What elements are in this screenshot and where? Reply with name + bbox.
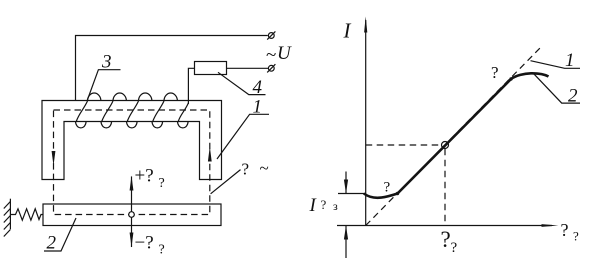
svg-text:?: ? [441, 227, 451, 252]
node on armature [129, 212, 135, 218]
y axis [365, 20, 367, 226]
svg-text:?: ? [159, 176, 165, 191]
svg-text:?: ? [573, 229, 579, 244]
svg-text:з: з [333, 199, 338, 213]
tick at Iz level [338, 193, 366, 195]
x axis [337, 225, 552, 227]
wall (hatched support) [4, 199, 11, 237]
svg-text:?: ? [242, 160, 250, 179]
label 2 leader [44, 218, 76, 251]
wire resistor to coil [188, 68, 194, 104]
dashed horizontal to point [366, 144, 441, 146]
svg-text:~: ~ [260, 159, 269, 178]
svg-text:I: I [343, 19, 352, 43]
svg-text:2: 2 [47, 233, 57, 254]
wire top from coil to terminal [76, 36, 268, 102]
armature bar 2 [43, 204, 221, 226]
spring [10, 209, 43, 220]
terminal bottom [267, 64, 275, 72]
svg-text:I: I [309, 195, 318, 216]
label 1 leader [217, 114, 269, 159]
svg-text:?: ? [561, 220, 569, 240]
svg-text:1: 1 [565, 50, 575, 71]
svg-text:−?: −? [135, 233, 154, 254]
label 4 leader [218, 72, 266, 94]
svg-text:3: 3 [101, 52, 112, 73]
terminal top [267, 31, 275, 39]
force arrow down -F [130, 217, 134, 247]
svg-text:?: ? [321, 197, 327, 212]
dimension arrows Iz [344, 172, 348, 259]
svg-text:2: 2 [568, 86, 578, 107]
curve 2 [364, 73, 549, 198]
core (inverted U magnetic circuit) 1 [42, 101, 222, 180]
flux arrow right (up) [208, 147, 212, 162]
svg-text:?: ? [491, 63, 499, 82]
label 3 leader [87, 70, 121, 101]
svg-text:?: ? [159, 243, 165, 258]
svg-text:1: 1 [253, 97, 263, 118]
air gap leader [211, 170, 241, 194]
force arrow up +F [130, 176, 134, 212]
dashed vertical to axis [444, 149, 446, 226]
coil 3 diagonals [76, 101, 188, 121]
svg-text:U: U [277, 43, 292, 64]
svg-text:?: ? [451, 240, 458, 256]
coil 3 upper bumps [88, 93, 178, 101]
svg-text:+?: +? [135, 166, 154, 187]
label 1 leader (graph) [531, 61, 581, 69]
dashed straight line 1 [366, 46, 542, 226]
resistor R 4 [195, 62, 227, 75]
flux path dashed loop [54, 110, 210, 215]
svg-text:~: ~ [266, 45, 276, 66]
svg-text:?: ? [384, 180, 391, 196]
label 2 leader (graph) [534, 74, 580, 103]
point circle [442, 142, 449, 149]
flux arrow left (down) [52, 151, 56, 166]
wire resistor to terminal [227, 67, 269, 69]
svg-text:4: 4 [253, 77, 263, 98]
coil 3 lower arcs [76, 121, 189, 128]
